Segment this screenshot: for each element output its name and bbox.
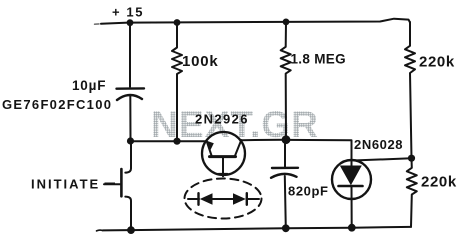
svg-text:220k: 220k [419,54,455,71]
capacitor C2 820pF top plate [272,167,298,170]
svg-text:100k: 100k [182,53,219,70]
svg-text:2N2926: 2N2926 [195,112,249,127]
thyristor Q2 anode triangle [340,166,362,186]
node A (cap / initiate / base wire) [127,137,134,144]
wire bottom rail lead-in tilde [97,229,103,232]
transistor Q3 source lead [125,197,131,230]
node bottom of 100k [173,138,180,145]
thyristor Q2 2N6028 circle [332,160,371,199]
wire diode string left segment [188,198,199,200]
diode network dashed ellipse [185,179,262,219]
resistor R2 1.8MEG [281,22,291,140]
diode D1 cathode bar [197,193,199,205]
node top of 100k [174,19,181,26]
wire bottom rail [103,227,411,231]
wire 820pF to bottom rail [285,176,286,228]
transistor Q1 base lead down [222,158,224,177]
wire capacitor to node A [129,96,131,142]
transistor Q1 collector lead [235,140,241,156]
node bottom of initiate branch [127,226,135,234]
svg-text:1.8 MEG: 1.8 MEG [291,52,346,67]
wire node A to emitter of Q1 [131,140,207,142]
wire collector of Q1 to node B [241,139,286,142]
transistor Q1 2N2926 circle [202,132,245,175]
resistor R1 100k [172,23,182,142]
wire node B to 820pF capacitor [284,140,286,168]
wire node B to anode of Q2 [286,140,352,166]
node B (collector / 1.8MEG / 820pF / anode wire) [282,135,291,144]
node C (gate / 220k junction) [408,155,415,162]
capacitor C1 10uF top plate [117,87,145,90]
transistor Q1 emitter lead [207,142,212,156]
svg-text:10µF: 10µF [72,78,106,93]
svg-text:GE76F02FC100: GE76F02FC100 [2,97,112,112]
svg-text:820pF: 820pF [288,184,329,199]
svg-text:INITIATE: INITIATE [31,177,100,192]
tick at base lead end [219,173,228,175]
wire top rail lead-in dash [95,23,100,25]
wire top +15 rail [101,19,410,24]
diode D2 cathode bar [246,193,248,205]
node bottom of Q2 cathode [348,224,356,232]
node bottom of 820pF branch [282,224,290,232]
thyristor Q2 cathode lead to bottom rail [351,186,353,227]
diode D2 triangle pointing right [233,193,246,204]
label INITIATE dash [105,183,116,185]
wire diode string middle segment [213,198,234,200]
svg-text:2N6028: 2N6028 [354,137,403,152]
transistor Q1 base bar [210,155,236,158]
svg-text:+ 15: + 15 [112,5,144,20]
thyristor Q2 cathode bar [339,185,363,188]
transistor Q3 initiate FET drain lead [125,141,131,172]
capacitor C2 820pF bottom curved plate [271,174,297,178]
wire gate of Q2 to node C [356,158,412,160]
node V+ dot left [127,19,134,26]
node top of 1.8MEG [283,19,290,26]
wire diode string right segment [247,198,259,200]
transistor Q3 channel bar [120,169,123,196]
svg-text:220k: 220k [421,174,457,191]
capacitor C1 10uF bottom curved plate [117,95,142,100]
transistor Q1 emitter arrow [206,141,214,151]
resistor R4 220k bottom [407,158,417,227]
wire left branch to capacitor [129,23,131,87]
transistor Q3 gate lead [104,183,120,185]
diode D1 triangle pointing left [200,193,213,204]
resistor R3 220k top [405,22,415,158]
